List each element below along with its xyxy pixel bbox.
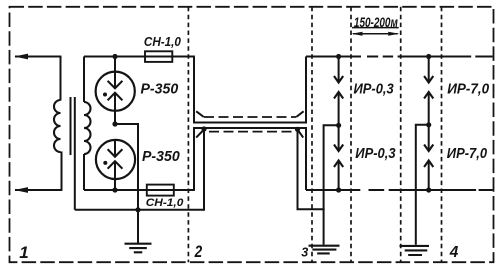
wire: secondary bottom to fuse lower bbox=[84, 189, 195, 191]
node: bottom bus / ИР-0,3 bbox=[336, 187, 341, 192]
arrester ИР-0,3 upper bbox=[338, 57, 340, 83]
node: top of upper arrester bbox=[112, 54, 117, 59]
bypass wire ИР-0,3 mid node to earth bbox=[324, 125, 339, 244]
node: sheath earth right bbox=[295, 127, 300, 132]
earth wire y=210.5 bbox=[75, 209, 204, 211]
arrester ИР-0,3 lower bbox=[338, 125, 340, 151]
node: top bus / arrester ИР-7,0 bbox=[426, 54, 431, 59]
svg-text:3: 3 bbox=[301, 246, 308, 260]
node: bottom bus / ИР-7,0 bbox=[426, 187, 431, 192]
line wire lower with arrow bbox=[14, 187, 28, 193]
svg-text:ИР-7,0: ИР-7,0 bbox=[447, 144, 487, 161]
fuse СН-1,0 upper bbox=[145, 51, 172, 62]
zone divider 1|2 bbox=[187, 7, 189, 262]
cable sheath bottom dashed bbox=[209, 131, 295, 133]
node: top bus / arrester ИР-0,3 bbox=[336, 54, 341, 59]
node: mid ИР-7,0 bbox=[426, 122, 431, 127]
line wire upper with arrow bbox=[14, 54, 28, 60]
cable wire top bbox=[193, 122, 307, 124]
sheath earth lead left bbox=[203, 129, 205, 211]
node: earth tap bbox=[135, 207, 140, 212]
sheath flare bottom-right bbox=[298, 130, 304, 138]
transformer core line extended to earth wire bbox=[74, 97, 76, 210]
transformer T1 secondary winding bbox=[84, 102, 91, 154]
ground at ИР-7,0 bbox=[400, 246, 430, 255]
ground at cable end bbox=[309, 246, 340, 254]
arrester Р-350 upper bbox=[114, 57, 116, 72]
top bus bbox=[306, 56, 493, 58]
svg-text:1: 1 bbox=[19, 243, 28, 262]
transformer core bbox=[70, 97, 72, 155]
node: mid ИР-0,3 bbox=[336, 123, 341, 128]
secondary top lead bbox=[83, 57, 85, 103]
zone divider at ИР-7,0 column bbox=[400, 7, 402, 262]
riser right (cable to top bus) bbox=[305, 57, 307, 124]
fuse СН-1,0 lower bbox=[147, 185, 174, 196]
svg-text:ИР-7,0: ИР-7,0 bbox=[447, 81, 489, 98]
riser right lower (cable to bottom bus) bbox=[305, 127, 307, 190]
node: bottom of lower arrester bbox=[112, 187, 117, 192]
node: sheath earth left bbox=[201, 126, 206, 131]
sheath earth lead right bbox=[298, 129, 325, 209]
bypass wire ИР-7,0 mid node to earth bbox=[416, 125, 429, 245]
node: between arresters bbox=[112, 121, 117, 126]
transformer T1 primary winding bbox=[54, 100, 61, 152]
svg-text:4: 4 bbox=[449, 244, 459, 261]
zone divider 2|3 bbox=[311, 7, 313, 262]
svg-text:ИР-0,3: ИР-0,3 bbox=[354, 80, 394, 97]
sheath flare top-left bbox=[196, 111, 204, 117]
cable wire bottom bbox=[193, 127, 307, 129]
ground station bbox=[125, 244, 152, 253]
riser left lower (cable to fuse wire) bbox=[193, 127, 195, 190]
svg-text:ИР-0,3: ИР-0,3 bbox=[355, 144, 395, 161]
svg-text:2: 2 bbox=[194, 242, 203, 261]
svg-text:СН-1,0: СН-1,0 bbox=[144, 35, 181, 50]
cable sheath top dashed bbox=[204, 116, 296, 118]
arrester ИР-7,0 upper bbox=[428, 57, 430, 83]
zone divider 3|4 bbox=[441, 7, 443, 262]
secondary bottom lead bbox=[83, 154, 85, 190]
wire: secondary top to fuse and riser bbox=[84, 56, 195, 58]
svg-text:Р-350: Р-350 bbox=[142, 149, 180, 166]
wire: mid node to earth lead bbox=[115, 124, 138, 244]
bottom bus bbox=[306, 189, 493, 191]
riser left (top wire to cable) bbox=[193, 57, 195, 124]
zone divider at ИР-0,3 column bbox=[350, 7, 352, 262]
svg-text:СН-1,0: СН-1,0 bbox=[146, 198, 184, 210]
sheath flare top-right bbox=[296, 111, 303, 117]
sheath flare bottom-left bbox=[196, 130, 204, 138]
svg-text:Р-350: Р-350 bbox=[141, 81, 179, 98]
arrester Р-350 lower bbox=[96, 140, 135, 179]
arrester ИР-7,0 lower bbox=[428, 125, 430, 151]
